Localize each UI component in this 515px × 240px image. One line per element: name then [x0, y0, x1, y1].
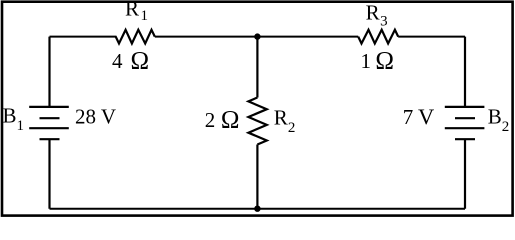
battery B1 — [29, 107, 69, 139]
wire: bottom horizontal (left corner to right corner) — [50, 208, 466, 210]
svg-text:7V: 7V — [403, 104, 434, 129]
resistor R2 — [248, 98, 266, 145]
resistor R3 — [358, 30, 398, 44]
svg-text:2Ω: 2Ω — [205, 107, 240, 134]
wire: middle vertical lower (R2 to bottom node) — [256, 145, 258, 209]
svg-text:1Ω: 1Ω — [361, 47, 394, 74]
svg-text:4Ω: 4Ω — [112, 47, 149, 74]
node: top junction dot — [254, 33, 260, 39]
wire: left vertical lower (battery B1 to bottom corner) — [48, 139, 50, 209]
wire: left vertical upper (corner to battery B1) — [48, 37, 50, 107]
wire: right vertical lower (battery B2 to bottom corner) — [464, 139, 466, 209]
battery B2 — [445, 107, 485, 139]
wire: top-right horizontal (R3 to corner) — [398, 36, 465, 38]
wire: middle vertical upper (top node to R2) — [256, 37, 258, 98]
wire: right vertical upper (corner to battery B2) — [464, 37, 466, 107]
node: bottom junction dot — [254, 206, 260, 212]
wire: top-left horizontal (corner to R1) — [50, 36, 117, 38]
wire: top middle (R1 to R3 through node) — [155, 36, 358, 38]
resistor R1 — [116, 30, 155, 44]
svg-text:28 V: 28 V — [75, 105, 116, 129]
